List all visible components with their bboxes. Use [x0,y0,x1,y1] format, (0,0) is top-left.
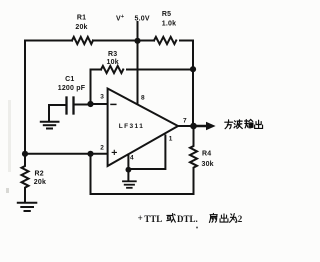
svg-text:1: 1 [169,136,173,143]
svg-text:R3: R3 [108,51,117,58]
glyph 为 [230,214,237,223]
svg-text:+: + [138,213,143,223]
node R3/R5 junction [190,66,196,72]
svg-text:C1: C1 [65,76,74,83]
resistor R3 [101,66,123,73]
wire pin 3 [91,103,108,105]
resistor R4 [190,126,197,194]
wire pin 8 V+ to op-amp [137,41,139,105]
svg-text:20k: 20k [75,24,87,31]
node output junction [190,123,197,130]
svg-text:1.0k: 1.0k [162,21,176,28]
op-amp U1 triangle [108,89,178,167]
wire pin 7 output [178,125,194,127]
resistor R1 [72,37,93,44]
svg-text:10k: 10k [107,59,119,66]
wire top-left from corner to R1 [25,40,72,42]
svg-text:TTL: TTL [144,214,162,224]
svg-text:8: 8 [141,95,145,102]
svg-text:R5: R5 [162,11,171,18]
plus sign pin2 [112,150,116,154]
capacitor C1 [49,104,67,106]
glyph 或 [167,214,176,223]
minus sign pin3 [111,103,116,105]
wire R5 to right column corner [180,41,193,70]
svg-text:3: 3 [100,94,104,101]
wire left vertical [24,41,26,154]
wire pin 2 [25,153,108,155]
faint scan smudge left edge [8,100,11,172]
wire pin2 node down to bottom wire [90,154,92,194]
ground under pin4 [127,170,129,180]
node V+ junction [134,38,140,44]
svg-text:2: 2 [238,214,243,224]
svg-text:2: 2 [100,145,104,152]
svg-text:5.0V: 5.0V [135,16,150,23]
terminal V+ stub [137,22,139,41]
wire pin3 node up and R3 row [91,70,102,105]
wire R1 to V+ node [93,40,138,42]
node pin2 feedback junction [87,151,93,157]
svg-text:R2: R2 [35,171,44,178]
wire pin 4 stub [127,155,129,170]
svg-text:R4: R4 [202,151,211,158]
svg-text:4: 4 [130,155,134,162]
svg-text:30k: 30k [202,161,214,168]
output arrow shaft [194,125,208,127]
svg-text:LF311: LF311 [119,123,144,130]
output arrowhead [206,122,216,131]
node left R2 junction [22,151,28,157]
ground under C1 [48,105,50,121]
wire pin 1 down and to pin4 node [128,136,165,170]
wire right column node to output node [192,69,194,126]
wire R3 to right column [127,69,193,71]
text 方波输出 (square wave output) hand-drawn glyphs [225,119,263,128]
node pin4 ground junction [125,167,131,173]
svg-text:7: 7 [183,118,187,125]
svg-text:20k: 20k [34,179,46,186]
glyph 扇 [209,213,217,222]
svg-text:DTL.: DTL. [177,214,198,224]
wire V+ node to R5 [138,40,155,42]
resistor R2 [22,154,29,201]
resistor R5 [154,37,176,44]
ground under R2 [18,202,37,204]
svg-text:1200 pF: 1200 pF [58,85,86,92]
glyph 出 [255,120,263,128]
svg-text:R1: R1 [77,15,86,22]
glyph 方 [225,120,233,129]
stray dot mark [196,227,198,229]
glyph 波 [234,120,242,129]
glyph 出 [220,214,228,222]
glyph 输 [245,119,253,127]
node pin3/C1 junction [87,101,93,107]
wire bottom feedback [91,193,194,195]
